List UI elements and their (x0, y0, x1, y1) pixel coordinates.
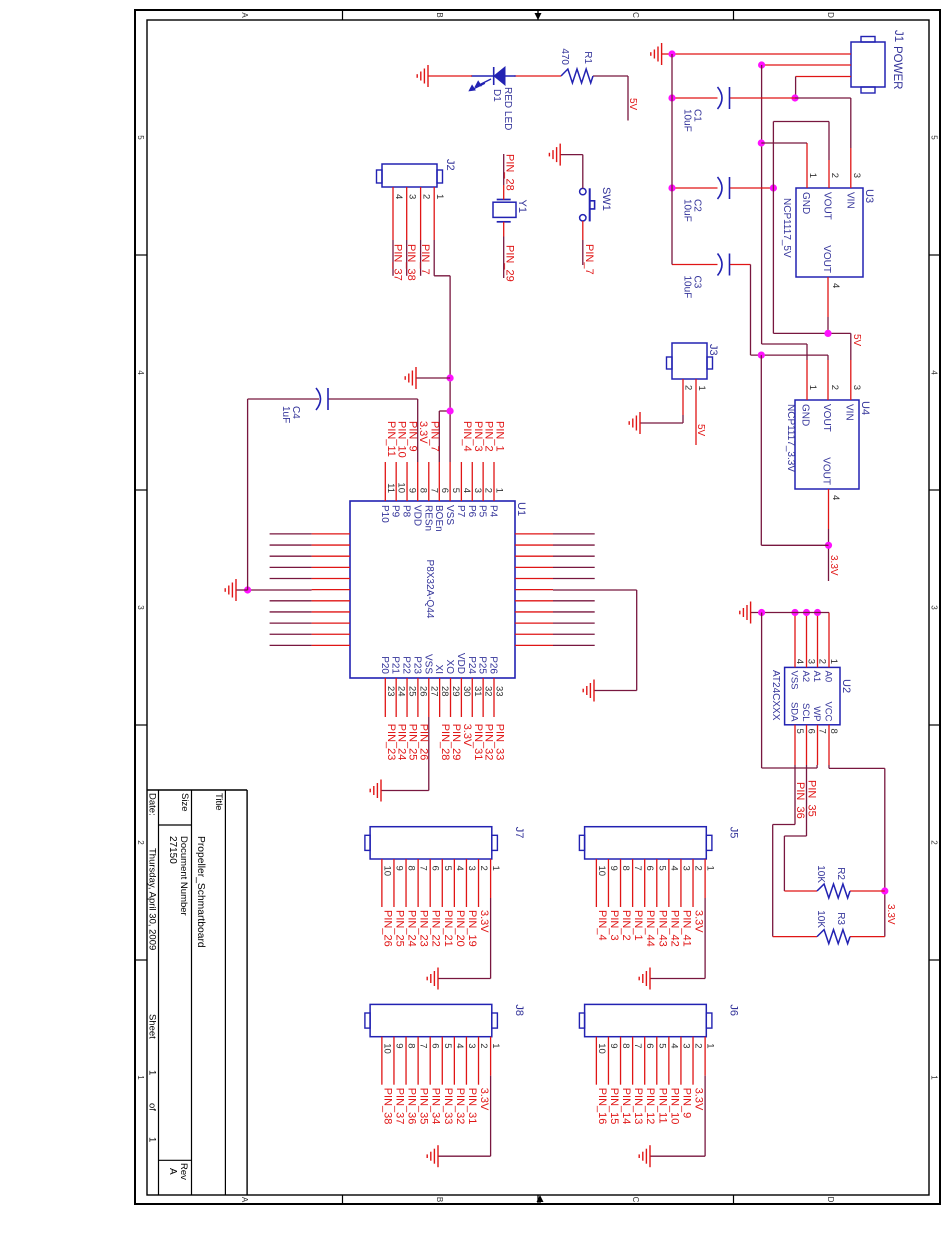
svg-text:XI: XI (433, 665, 444, 674)
svg-text:C: C (631, 12, 640, 18)
U3 pin 3 wire VIN (795, 98, 851, 188)
U1 pin 3 P6 (466, 462, 483, 518)
svg-text:3: 3 (472, 488, 483, 493)
svg-text:3: 3 (136, 605, 145, 610)
svg-text:P8: P8 (401, 505, 412, 518)
J6 pin 7 wire (632, 1037, 643, 1085)
J5 pin 5 wire (656, 859, 667, 907)
U4 pin 2 wire VOUT (751, 355, 829, 400)
junction GND rail at U3 pin1 (758, 139, 765, 146)
svg-text:PIN_38: PIN_38 (381, 1088, 393, 1125)
svg-text:1: 1 (147, 1070, 158, 1075)
svg-text:470: 470 (559, 48, 570, 65)
U1 pin 34 top stub (515, 644, 595, 646)
svg-text:C: C (631, 1197, 640, 1203)
svg-text:XO: XO (444, 660, 455, 675)
svg-text:VSS: VSS (789, 671, 800, 690)
svg-text:WP: WP (811, 706, 822, 721)
U1 pin 9 P8 (401, 462, 418, 518)
svg-text:5: 5 (656, 866, 667, 871)
svg-text:2: 2 (829, 173, 840, 178)
J7 pin 7 wire (418, 859, 429, 907)
svg-text:PIN_35: PIN_35 (418, 1088, 430, 1125)
svg-text:R3: R3 (835, 912, 846, 925)
J6 pin 9 wire (608, 1037, 619, 1085)
svg-text:GND: GND (800, 192, 811, 214)
svg-text:U4: U4 (859, 401, 871, 415)
svg-text:Sheet: Sheet (147, 1014, 158, 1039)
svg-text:PIN_9: PIN_9 (680, 1088, 692, 1119)
svg-text:6: 6 (644, 1043, 655, 1048)
svg-text:4: 4 (393, 194, 404, 199)
ground symbol at J1 input rail (651, 43, 662, 65)
J6 pin 5 wire (656, 1037, 667, 1085)
svg-text:PIN_25: PIN_25 (393, 910, 405, 947)
J7 pin 5 wire (442, 859, 453, 907)
ground symbol at J6 (639, 1145, 650, 1167)
J6 pin 4 wire (668, 1037, 679, 1085)
J3 pin 1 wire 5V (695, 379, 697, 445)
svg-text:5: 5 (930, 135, 939, 140)
ground symbol at J7 (427, 968, 438, 990)
J7 pin 3 wire (466, 859, 477, 907)
U1 pin 17 bottom stub (312, 589, 350, 591)
svg-text:2: 2 (693, 866, 704, 871)
wire SW1 to ground (560, 155, 583, 189)
svg-text:6: 6 (439, 488, 450, 493)
connector J5 body (579, 827, 712, 859)
svg-text:4: 4 (454, 866, 465, 871)
U1 pin 4 P7 (455, 462, 472, 518)
U4 pin 3 wire VIN (850, 360, 852, 400)
wire Y1 left PIN_28 (503, 154, 505, 200)
svg-text:3.3V: 3.3V (693, 1088, 705, 1111)
U2 pin 8 VCC wire (823, 701, 840, 765)
wire 5V rail from U3 VOUT to U4 VIN (773, 122, 850, 361)
svg-text:A0: A0 (823, 671, 834, 683)
svg-text:1: 1 (807, 385, 818, 390)
svg-text:PIN_31: PIN_31 (466, 1088, 478, 1125)
svg-text:2: 2 (483, 488, 494, 493)
svg-text:A1: A1 (811, 671, 822, 683)
J8 pin 6 wire (430, 1037, 441, 1085)
column numbers top band (930, 135, 939, 1080)
svg-text:PIN_21: PIN_21 (442, 910, 454, 947)
svg-text:P8X32A-Q44: P8X32A-Q44 (424, 560, 435, 619)
svg-text:1: 1 (705, 1043, 716, 1048)
U3 pin 2 wire VOUT 5V (828, 122, 830, 189)
U1 pin 32 P25 (477, 656, 494, 717)
U1 pin 38 top stub (515, 600, 595, 602)
svg-text:VIN: VIN (845, 192, 856, 209)
wire C2 top to 5V rail (730, 187, 774, 189)
junction U2 pin 3 ground chain (803, 609, 810, 616)
U1 pin 23 P20 (379, 656, 396, 717)
U2 pin 1 A0 wire (823, 613, 840, 683)
svg-text:3.3V: 3.3V (828, 555, 839, 576)
U1 pin 22 bottom stub (270, 644, 350, 646)
svg-text:9: 9 (608, 1043, 619, 1048)
U1 pin 44 top stub (515, 533, 595, 535)
svg-text:4: 4 (794, 659, 805, 664)
svg-text:10uF: 10uF (682, 109, 693, 132)
wire R1 to LED anode (514, 75, 561, 77)
svg-text:4: 4 (830, 283, 841, 288)
svg-text:5: 5 (794, 729, 805, 734)
U1 pin 19 bottom stub (270, 611, 350, 613)
wire 5V feed to R1 (593, 76, 628, 121)
svg-text:PIN_33: PIN_33 (442, 1088, 454, 1125)
svg-text:PIN_2: PIN_2 (620, 910, 632, 941)
svg-text:27: 27 (428, 686, 439, 697)
capacitor C3 (682, 254, 730, 299)
svg-text:P21: P21 (390, 656, 401, 674)
svg-text:Y1: Y1 (516, 200, 528, 213)
wire C3 bottom to ground rail (672, 264, 718, 266)
J8 pin 1 wire (438, 1037, 501, 1157)
svg-text:2: 2 (478, 866, 489, 871)
wire VSS branch to ground (416, 377, 450, 379)
U1 pin 20 bottom stub (270, 622, 350, 624)
svg-text:Document Number: Document Number (178, 836, 189, 916)
svg-text:PIN_28: PIN_28 (504, 154, 516, 191)
connector J7 body (365, 827, 498, 859)
U1 pin 25 P22 (401, 656, 418, 717)
svg-text:R2: R2 (835, 867, 846, 880)
svg-text:24: 24 (396, 686, 407, 697)
svg-text:J3: J3 (707, 344, 719, 356)
svg-text:5: 5 (442, 1043, 453, 1048)
svg-text:PIN_23: PIN_23 (385, 724, 397, 761)
svg-text:2: 2 (421, 194, 432, 199)
svg-text:3.3V: 3.3V (693, 910, 705, 933)
center arrow marker right band (537, 1195, 544, 1204)
svg-text:U3: U3 (863, 189, 875, 203)
svg-text:31: 31 (472, 686, 483, 697)
J6 pin 2 wire (693, 1037, 704, 1085)
svg-text:3: 3 (680, 866, 691, 871)
U1 pin 27 VSS (381, 654, 439, 791)
wire C4 top to VDD (328, 398, 418, 400)
J6 pin 3 wire (680, 1037, 691, 1085)
svg-text:1: 1 (494, 488, 505, 493)
svg-text:PIN_44: PIN_44 (644, 910, 656, 947)
svg-text:PIN_1: PIN_1 (632, 910, 644, 941)
svg-text:PIN_22: PIN_22 (430, 910, 442, 947)
svg-text:7: 7 (632, 866, 643, 871)
U1 pin 30 VDD (455, 653, 472, 717)
svg-text:VSS: VSS (444, 505, 455, 525)
J6 pin 8 wire (620, 1037, 631, 1085)
J7 pin 9 wire (393, 859, 404, 907)
connector J3 body (667, 343, 713, 379)
U1 pin 7 RESn (422, 462, 439, 531)
resistor R3 leads (773, 936, 885, 938)
svg-text:3: 3 (466, 1043, 477, 1048)
svg-text:PIN_36: PIN_36 (406, 1088, 418, 1125)
junction R2 on 3.3V rail (881, 887, 888, 894)
J2 pin 3 wire PIN_38 (406, 187, 408, 276)
svg-text:2: 2 (817, 659, 828, 664)
wire C1 top to VIN node (730, 97, 796, 99)
U1 pin 1 P4 (488, 462, 505, 518)
J8 pin 9 wire (393, 1037, 404, 1085)
wire U2 ground chain (751, 612, 829, 614)
svg-text:A: A (167, 1168, 178, 1175)
svg-text:P23: P23 (411, 656, 422, 674)
connector J2 body (377, 164, 443, 187)
svg-text:5V: 5V (695, 424, 706, 437)
junction 3.3V branch on U4 VOUT wire (825, 542, 832, 549)
svg-text:J5: J5 (727, 827, 739, 839)
svg-text:PIN_36: PIN_36 (794, 782, 806, 819)
svg-text:VCC: VCC (823, 701, 834, 721)
U1 pin 8 VDD (411, 399, 428, 526)
svg-text:1: 1 (930, 1075, 939, 1080)
svg-text:VOUT: VOUT (821, 404, 832, 432)
svg-text:P22: P22 (401, 656, 412, 674)
J2 pin 2 wire PIN_7 (420, 187, 422, 276)
border row ticks left band (343, 10, 734, 20)
U2 pin 5 SDA wire (789, 702, 806, 765)
ground symbol at U2 (740, 602, 751, 624)
svg-text:SDA: SDA (789, 702, 800, 722)
svg-text:VOUT: VOUT (821, 245, 832, 273)
U1 pin 36 top stub (515, 622, 595, 624)
svg-text:PIN_3: PIN_3 (608, 910, 620, 941)
column numbers bottom band (136, 135, 145, 1080)
capacitor C4 (316, 388, 328, 410)
svg-text:NCP1117_5V: NCP1117_5V (781, 198, 792, 258)
wire Y1 right PIN_29 (503, 222, 505, 278)
svg-text:P10: P10 (379, 505, 390, 523)
svg-text:NCP1117_3.3V: NCP1117_3.3V (785, 404, 796, 472)
svg-text:D: D (826, 1197, 835, 1203)
U1 pin 35 top stub (515, 633, 595, 635)
wire C4 bottom to ground (248, 399, 319, 590)
svg-text:7: 7 (428, 488, 439, 493)
U1 pin 31 P24 (466, 656, 483, 717)
svg-text:1: 1 (828, 659, 839, 664)
svg-text:10: 10 (596, 1043, 607, 1054)
svg-text:9: 9 (393, 866, 404, 871)
U1 pin 37 top stub (515, 611, 595, 613)
ground symbol at SW1 (549, 144, 560, 166)
wire 3.3V rail to chip area (761, 355, 828, 545)
svg-text:PIN_24: PIN_24 (406, 910, 418, 947)
svg-text:PIN_10: PIN_10 (668, 1088, 680, 1125)
svg-text:1: 1 (490, 866, 501, 871)
J5 pin 7 wire (632, 859, 643, 907)
junction U2 pin 4 ground chain (791, 609, 798, 616)
svg-text:J6: J6 (727, 1004, 739, 1016)
svg-text:VDD: VDD (455, 653, 466, 674)
wire U2 SDA to R3 (773, 765, 795, 937)
svg-text:PIN_19: PIN_19 (466, 910, 478, 947)
border column ticks top band (929, 255, 940, 960)
svg-text:10: 10 (396, 482, 407, 493)
junction J1 pin2 / GND rail (758, 61, 765, 68)
svg-text:PIN_4: PIN_4 (596, 910, 608, 941)
J7 pin 6 wire (430, 859, 441, 907)
svg-text:PIN_42: PIN_42 (668, 910, 680, 947)
ground symbol at LED D1 (417, 65, 428, 87)
svg-text:4: 4 (454, 1043, 465, 1048)
svg-text:3.3V: 3.3V (478, 1088, 490, 1111)
svg-text:PIN_12: PIN_12 (644, 1088, 656, 1125)
svg-text:VIN: VIN (844, 404, 855, 421)
svg-text:POWER: POWER (891, 46, 903, 89)
svg-text:PIN_34: PIN_34 (430, 1088, 442, 1125)
svg-text:11: 11 (385, 483, 396, 493)
svg-text:6: 6 (430, 1043, 441, 1048)
ground symbol at J5 (639, 968, 650, 990)
svg-text:5V: 5V (851, 334, 862, 347)
svg-text:9: 9 (393, 1043, 404, 1048)
ground symbol at J8 (427, 1145, 438, 1167)
U1 pin 43 top stub (515, 544, 595, 546)
svg-text:PIN_4: PIN_4 (461, 421, 473, 452)
U2 pin 2 A1 wire (811, 613, 828, 683)
svg-text:PIN_7: PIN_7 (419, 244, 431, 275)
ground symbol at U1 pin27 VSS (370, 780, 381, 802)
svg-text:7: 7 (418, 866, 429, 871)
EEPROM U2 body (785, 667, 840, 724)
svg-text:6: 6 (806, 729, 817, 734)
svg-text:2: 2 (693, 1043, 704, 1048)
svg-text:VOUT: VOUT (821, 457, 832, 485)
svg-text:PIN_28: PIN_28 (439, 724, 451, 761)
svg-text:VSS: VSS (422, 654, 433, 674)
J8 pin 7 wire (418, 1037, 429, 1085)
wire U2 SCL to R2 (784, 765, 806, 891)
capacitor C2 (682, 177, 730, 222)
svg-text:Title: Title (213, 793, 224, 811)
svg-text:A: A (240, 12, 249, 18)
svg-text:J1: J1 (892, 30, 904, 42)
svg-text:PIN_20: PIN_20 (454, 910, 466, 947)
svg-text:5: 5 (442, 866, 453, 871)
svg-text:PIN_7: PIN_7 (583, 244, 595, 275)
svg-text:32: 32 (483, 686, 494, 697)
svg-text:5: 5 (656, 1043, 667, 1048)
svg-text:P24: P24 (466, 656, 477, 674)
J5 pin 9 wire (608, 859, 619, 907)
svg-text:1: 1 (807, 173, 818, 178)
J7 pin 2 wire (478, 859, 489, 907)
svg-text:3: 3 (407, 194, 418, 199)
J8 pin 10 wire (381, 1037, 392, 1085)
svg-text:U1: U1 (515, 502, 527, 516)
U1 pin 33 P26 (488, 656, 505, 717)
wire J1 pin2 to GND net rail (762, 64, 851, 66)
svg-text:R1: R1 (582, 51, 593, 64)
J6 pin 10 wire (596, 1037, 607, 1085)
svg-text:PIN_41: PIN_41 (680, 910, 692, 947)
U1 pin 16 bottom stub (270, 578, 350, 580)
svg-text:7: 7 (817, 729, 828, 734)
U1 pin 18 bottom stub (270, 600, 350, 602)
U1 pin 6 BOEn (433, 411, 450, 532)
junction C2 ground rail (668, 184, 675, 191)
ground symbol at U1 VSS pin5 (405, 367, 416, 389)
U2 pin 3 A2 wire (800, 613, 817, 683)
junction C2 top / 5V rail (770, 184, 777, 191)
wire LED cathode to ground (428, 75, 472, 77)
J5 pin 8 wire (620, 859, 631, 907)
svg-text:6: 6 (644, 866, 655, 871)
svg-text:3.3V: 3.3V (478, 910, 490, 933)
junction C1 ground rail (668, 94, 675, 101)
ground symbol at U1 pin39 (583, 680, 594, 702)
svg-text:28: 28 (439, 686, 450, 697)
J8 pin 3 wire (466, 1037, 477, 1085)
svg-text:8: 8 (406, 866, 417, 871)
J7 pin 8 wire (406, 859, 417, 907)
svg-text:4: 4 (461, 488, 472, 493)
svg-text:BOEn: BOEn (433, 505, 444, 532)
J8 pin 8 wire (406, 1037, 417, 1085)
resistor R3 zigzag (817, 930, 850, 944)
svg-text:33: 33 (494, 686, 505, 697)
resistor R2 leads (784, 890, 884, 892)
svg-text:4: 4 (136, 370, 145, 375)
svg-text:9: 9 (608, 866, 619, 871)
LED D1 (470, 67, 516, 91)
switch SW1 body (580, 188, 595, 221)
svg-text:2: 2 (683, 385, 694, 390)
row letters left band (240, 12, 835, 18)
svg-text:A2: A2 (800, 671, 811, 683)
svg-text:2: 2 (478, 1043, 489, 1048)
svg-text:Date:: Date: (147, 793, 158, 816)
U1 pin 14 bottom stub (270, 555, 350, 557)
svg-text:26: 26 (417, 686, 428, 697)
svg-text:U2: U2 (840, 679, 852, 693)
J7 pin 10 wire (381, 859, 392, 907)
J5 pin 3 wire (680, 859, 691, 907)
svg-text:2: 2 (136, 840, 145, 845)
U1 pin 24 P21 (390, 656, 407, 717)
svg-text:AT24CXXX: AT24CXXX (770, 670, 781, 721)
svg-text:1uF: 1uF (280, 406, 291, 423)
svg-text:Thursday, April 30, 2009: Thursday, April 30, 2009 (147, 848, 158, 950)
U1 pin 11 P10 (379, 462, 396, 523)
svg-text:3: 3 (466, 866, 477, 871)
U4 pin 1 wire GND (806, 360, 808, 400)
wire GND net rail to U3 and U4 (762, 65, 807, 360)
svg-text:P7: P7 (455, 505, 466, 518)
U2 pin 6 SCL wire (800, 703, 817, 765)
svg-text:8: 8 (406, 1043, 417, 1048)
svg-text:B: B (435, 12, 444, 17)
svg-text:PIN_15: PIN_15 (608, 1088, 620, 1125)
svg-text:A: A (240, 1197, 249, 1203)
svg-text:GND: GND (800, 404, 811, 426)
svg-text:25: 25 (407, 686, 418, 697)
svg-text:PIN_13: PIN_13 (632, 1088, 644, 1125)
wire U2 VCC to 3.3V rail (829, 765, 885, 937)
svg-text:P9: P9 (390, 505, 401, 518)
U3 pin 1 wire GND (761, 143, 807, 188)
J7 pin 4 wire (454, 859, 465, 907)
junction C1 top / VIN node (791, 94, 798, 101)
ground symbol at J3 (629, 412, 640, 434)
svg-text:4: 4 (830, 495, 841, 500)
svg-text:PIN_43: PIN_43 (656, 910, 668, 947)
wire C1 bottom to ground rail (672, 97, 718, 99)
svg-text:P5: P5 (477, 505, 488, 518)
